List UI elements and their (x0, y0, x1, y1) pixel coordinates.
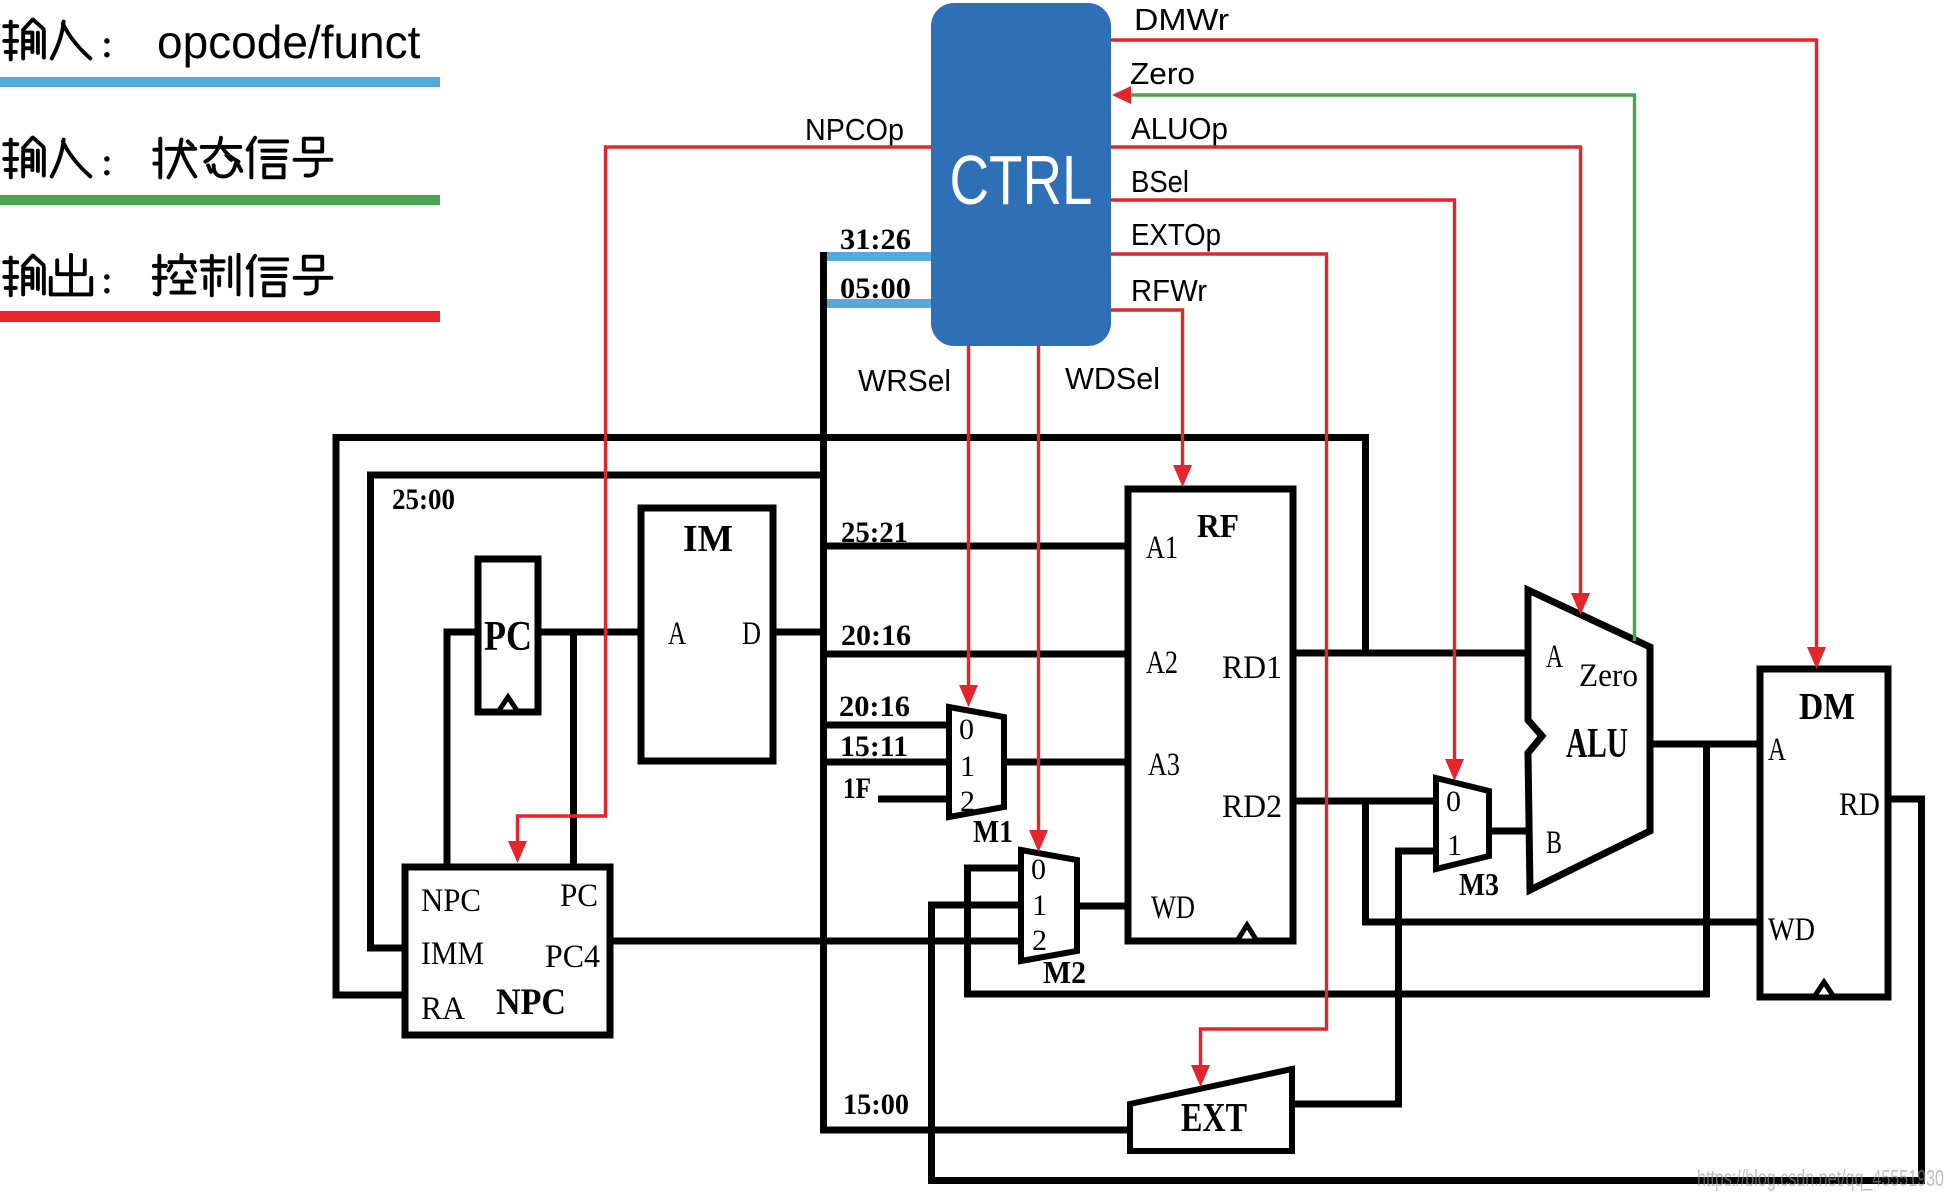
signal DMWr wire (1111, 40, 1817, 648)
wire M1 output to RF.A3 (1004, 759, 1128, 766)
svg-text:15:00: 15:00 (843, 1088, 909, 1121)
wire PC output to IM.A (538, 629, 641, 636)
svg-text:0: 0 (1446, 785, 1461, 818)
signal WRSel arrowhead (959, 685, 978, 707)
svg-text:https://blog.csdn.net/qq_45551: https://blog.csdn.net/qq_45551930 (1697, 1165, 1944, 1191)
extender EXT (1130, 1069, 1292, 1151)
legend line 1 text: 输入： opcode/funct (4, 16, 420, 68)
signal BSel arrowhead (1445, 759, 1464, 781)
svg-text:PC: PC (484, 614, 532, 660)
svg-text:EXT: EXT (1181, 1094, 1247, 1140)
RF clock wedge (1237, 925, 1257, 941)
svg-text:25:00: 25:00 (392, 483, 455, 516)
svg-text:DM: DM (1799, 686, 1855, 728)
signal ALUOp wire (1111, 147, 1581, 594)
block NPC (405, 867, 610, 1035)
svg-text:1F: 1F (843, 772, 871, 805)
legend line 2 text: 输入： 状态信号 (4, 138, 331, 178)
wire RD2 branch to DM.WD (1366, 801, 1761, 922)
svg-text:0: 0 (1031, 853, 1046, 886)
svg-text:PC: PC (560, 878, 598, 914)
legend line 3 text: 输出： 控制信号 (4, 255, 331, 295)
wire M3 output to ALU.B (1489, 828, 1530, 835)
svg-text:CTRL: CTRL (950, 141, 1093, 219)
wire NPC.PC4 output to M2 input 2 (610, 938, 1024, 945)
svg-text:WD: WD (1151, 890, 1195, 926)
svg-text:B: B (1546, 825, 1562, 861)
wire RF.RD2 to M3 input 0 (1293, 798, 1439, 805)
signal RFWr arrowhead (1173, 465, 1192, 487)
ALU U1 (1528, 590, 1650, 890)
svg-text:WD: WD (1768, 912, 1815, 948)
signal WDSel wire (1037, 346, 1040, 831)
svg-text:IM: IM (683, 518, 733, 560)
legend underline green (state signals) (0, 195, 440, 205)
svg-text:RD: RD (1839, 787, 1880, 823)
memory IM (641, 508, 773, 761)
wire 1F constant to M1 input 2 (878, 796, 952, 803)
mux M3 (1436, 778, 1489, 869)
svg-text:IMM: IMM (421, 936, 484, 972)
svg-text:M3: M3 (1459, 866, 1499, 902)
signal DMWr arrowhead (1807, 647, 1826, 669)
register file RF (1128, 489, 1293, 941)
svg-text:EXTOp: EXTOp (1131, 217, 1221, 252)
wire NPC output to PC input (447, 632, 478, 867)
PC clock wedge (498, 697, 518, 712)
svg-text:RF: RF (1197, 508, 1239, 545)
svg-text:A: A (1546, 639, 1563, 675)
controller CTRL (931, 3, 1111, 346)
memory DM (1760, 669, 1888, 997)
wire ALU result to M2 input 0 (968, 744, 1707, 994)
wire M2 output to RF.WD (1077, 903, 1128, 910)
signal NPCOp arrowhead (508, 841, 527, 863)
signal BSel wire (1111, 200, 1455, 760)
wire 15:00 bus to EXT (820, 1127, 1131, 1134)
svg-text:1: 1 (1447, 829, 1462, 862)
svg-text:opcode/funct: opcode/funct (157, 16, 421, 68)
wire instruction bus vertical (820, 252, 827, 1133)
wire 20:16 bus to RF.A2 (820, 651, 1128, 658)
svg-text:1: 1 (960, 750, 975, 783)
wire 25:00 bus to NPC.IMM (371, 475, 828, 948)
svg-text:RD2: RD2 (1222, 789, 1282, 825)
signal NPCOp wire (518, 147, 932, 842)
wire 15:11 bus to M1 input 1 (820, 759, 952, 766)
svg-text:20:16: 20:16 (839, 690, 910, 723)
svg-text:M1: M1 (973, 813, 1013, 849)
bus 31:26 slice wire (light blue) (822, 252, 931, 261)
signal WDSel arrowhead (1029, 830, 1048, 852)
svg-text:31:26: 31:26 (840, 223, 911, 256)
wire RD1 feedback to NPC.RA (outer loop) (336, 438, 1366, 996)
svg-text:0: 0 (959, 713, 974, 746)
signal ALUOp arrowhead (1571, 593, 1590, 615)
svg-text:NPC: NPC (421, 883, 481, 919)
register PC (478, 559, 538, 712)
mux M1 (949, 707, 1004, 817)
legend underline red (control signals) (0, 311, 440, 322)
svg-text:20:16: 20:16 (841, 619, 911, 652)
svg-text:PC4: PC4 (545, 939, 600, 975)
svg-text:WRSel: WRSel (858, 363, 951, 398)
svg-text:M2: M2 (1043, 954, 1086, 990)
wire ALU output to DM.A (1650, 741, 1760, 748)
wire RF.RD1 to ALU.A (1293, 650, 1530, 657)
DM clock wedge (1814, 982, 1834, 997)
svg-text:D: D (742, 616, 761, 652)
svg-text:A1: A1 (1146, 530, 1178, 566)
svg-text:WDSel: WDSel (1065, 361, 1160, 396)
svg-text:NPC: NPC (496, 982, 566, 1023)
mux M2 (1021, 850, 1077, 961)
svg-text:RA: RA (421, 991, 465, 1027)
svg-text:DMWr: DMWr (1134, 2, 1229, 37)
svg-text:A2: A2 (1146, 645, 1178, 681)
svg-text:Zero: Zero (1130, 56, 1195, 91)
svg-text:15:11: 15:11 (840, 730, 908, 763)
bus 05:00 slice wire (light blue) (822, 299, 931, 308)
svg-text:ALUOp: ALUOp (1131, 111, 1228, 146)
svg-text:A3: A3 (1148, 747, 1180, 783)
svg-text:A: A (668, 616, 686, 652)
svg-text:05:00: 05:00 (840, 272, 911, 305)
svg-text:1: 1 (1032, 889, 1047, 922)
signal Zero wire (green) (1130, 95, 1635, 641)
svg-text:RD1: RD1 (1222, 650, 1282, 686)
svg-text:ALU: ALU (1566, 721, 1628, 767)
wire EXT output to M3 input 1 (1290, 851, 1439, 1104)
svg-text:2: 2 (1032, 924, 1047, 957)
wire 20:16 bus to M1 input 0 (820, 722, 952, 729)
wire DM.RD return to M2 input 1 (932, 799, 1922, 1181)
signal EXTOp wire (1111, 254, 1327, 1066)
signal Zero arrowhead (1112, 86, 1131, 104)
wire PC output branch to NPC.PC (570, 632, 577, 867)
wire 25:21 bus to RF.A1 (820, 543, 1128, 550)
svg-text:RFWr: RFWr (1131, 273, 1207, 308)
svg-text:25:21: 25:21 (841, 516, 908, 549)
wire IM.D to bus (773, 629, 827, 636)
svg-text:BSel: BSel (1131, 164, 1189, 199)
svg-text:Zero: Zero (1579, 658, 1638, 694)
svg-text:A: A (1768, 732, 1786, 768)
svg-text:NPCOp: NPCOp (805, 112, 904, 147)
legend underline blue (opcode/funct) (0, 77, 440, 87)
signal EXTOp arrowhead (1191, 1065, 1210, 1087)
signal RFWr wire (1111, 310, 1183, 466)
signal WRSel wire (967, 346, 970, 686)
